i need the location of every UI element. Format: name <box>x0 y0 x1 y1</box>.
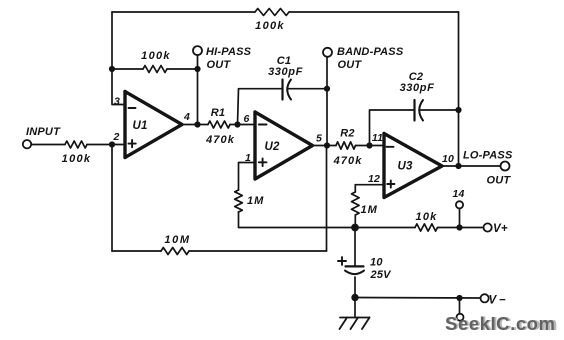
label pin 6 <box>243 113 249 125</box>
label cap 25V <box>370 269 393 281</box>
svg-text:10: 10 <box>442 153 454 165</box>
wire C1 to band-pass node <box>287 88 327 90</box>
svg-text:14: 14 <box>452 188 464 200</box>
svg-text:330pF: 330pF <box>400 82 435 94</box>
wire 10M up to U2 out <box>326 146 328 252</box>
label LO-PASS OUT <box>487 175 512 187</box>
node U3 pin 11 <box>366 142 372 148</box>
svg-text:25V: 25V <box>370 269 393 281</box>
wire node2 down <box>111 145 113 252</box>
label V- <box>489 295 506 307</box>
U2 plus sign <box>259 159 267 167</box>
label V+ <box>493 223 508 235</box>
label pin 10 <box>442 153 454 165</box>
svg-text:1M: 1M <box>247 195 264 207</box>
svg-text:10k: 10k <box>416 211 438 223</box>
node hi-pass <box>194 66 200 72</box>
wire pin14 stem <box>459 208 461 227</box>
label INPUT <box>26 126 61 138</box>
label R1 <box>211 107 225 119</box>
wire V- rail <box>355 297 480 300</box>
label R1 value <box>205 134 235 146</box>
label pin 3 <box>114 96 120 108</box>
wire U1 feedback left <box>112 68 143 70</box>
svg-text:5: 5 <box>316 133 322 145</box>
wire R1 to pin 6 <box>230 124 255 126</box>
svg-text:OUT: OUT <box>207 59 232 71</box>
node input pin 2 <box>109 141 115 147</box>
svg-text:BAND-PASS: BAND-PASS <box>337 46 404 58</box>
terminal BAND-PASS OUT <box>323 48 332 57</box>
wire resistor to node 2 <box>87 144 112 146</box>
wire band-pass stem <box>326 57 328 146</box>
terminal pin 14 <box>456 201 463 208</box>
node V- <box>456 295 462 301</box>
svg-text:U1: U1 <box>132 120 147 132</box>
node U1 inverting input <box>109 66 115 72</box>
U3 minus sign <box>387 146 394 148</box>
wire bias to 10k <box>355 227 415 229</box>
wire U1 output <box>182 124 208 126</box>
svg-text:12: 12 <box>368 173 380 185</box>
wire cap to ground node <box>354 277 356 298</box>
label 100k top <box>255 20 285 32</box>
U1 plus sign <box>129 140 136 147</box>
node C2 right <box>455 107 461 113</box>
op-amp U1 <box>125 92 182 158</box>
wire left vertical from top rail <box>111 12 113 69</box>
svg-text:U2: U2 <box>264 141 280 153</box>
wire right vertical rail <box>458 12 460 166</box>
node lo-pass <box>455 163 461 169</box>
terminal V+ <box>484 223 492 231</box>
label R2 value <box>333 155 363 167</box>
label pin 1 <box>245 152 251 164</box>
label cap 10 <box>370 257 383 269</box>
resistor 100k U1 feedback <box>143 66 167 73</box>
svg-text:470k: 470k <box>205 134 235 146</box>
wire node 2 to U1 <box>112 144 125 146</box>
label pin 12 <box>368 173 380 185</box>
resistor 10k <box>415 224 438 231</box>
wire input to resistor <box>31 144 65 146</box>
wire R2 to pin 11 <box>356 145 385 147</box>
resistor 100k input <box>65 141 87 148</box>
label HI-PASS OUT <box>207 59 232 71</box>
label pin 11 <box>372 132 383 144</box>
svg-text:SeekIC.com: SeekIC.com <box>445 313 555 334</box>
wire C1 branch <box>238 89 283 125</box>
label 10k <box>416 211 438 223</box>
terminal V- <box>481 294 489 302</box>
svg-text:1M: 1M <box>361 204 378 216</box>
wire U3 output <box>442 165 501 167</box>
wire bias to cap <box>354 228 356 267</box>
node U1 output <box>194 121 200 127</box>
svg-text:11: 11 <box>372 132 383 144</box>
label 100k U1 feedback <box>141 50 171 62</box>
wire 1M U2 to bias rail <box>239 212 356 228</box>
label U3 <box>397 161 413 173</box>
wire U1 feedback right <box>167 68 198 70</box>
label 10M <box>164 234 190 246</box>
svg-text:LO-PASS: LO-PASS <box>463 150 513 162</box>
wire hi-pass stem <box>197 55 199 124</box>
resistor R1 470k <box>208 121 230 128</box>
U2 minus sign <box>259 124 267 126</box>
node V+ <box>456 224 462 230</box>
svg-text:INPUT: INPUT <box>26 126 61 138</box>
label R2 <box>340 128 354 140</box>
svg-text:100k: 100k <box>255 20 285 32</box>
wire C2 to right rail <box>419 109 458 111</box>
resistor 10M <box>161 248 189 255</box>
label pin 2 <box>112 131 119 143</box>
capacitor C1 <box>283 80 292 100</box>
resistor R2 470k <box>336 142 356 149</box>
label 100k input <box>62 153 92 165</box>
op-amp U3 <box>384 134 442 198</box>
wire top feedback rail <box>112 11 459 13</box>
node U2 output <box>324 142 330 148</box>
wire to U1 pin 3 <box>112 69 125 105</box>
watermark SeekIC.com <box>445 313 558 334</box>
svg-text:HI-PASS: HI-PASS <box>206 46 252 58</box>
capacitor C2 <box>415 100 424 121</box>
node C1 band-pass <box>324 86 330 92</box>
label U1 <box>132 120 147 132</box>
wire V- pin stem <box>459 298 461 314</box>
label pin 5 <box>316 133 322 145</box>
svg-text:10M: 10M <box>164 234 190 246</box>
wire U3 pin 12 <box>355 184 384 186</box>
svg-text:330pF: 330pF <box>268 66 303 78</box>
label C2 <box>409 71 423 83</box>
svg-text:OUT: OUT <box>338 59 363 71</box>
terminal pin 7 <box>457 314 464 321</box>
svg-text:2: 2 <box>112 131 119 143</box>
svg-text:R1: R1 <box>211 107 225 119</box>
wire 10k to V+ <box>438 227 484 229</box>
svg-text:6: 6 <box>243 113 249 125</box>
terminal INPUT <box>23 140 31 148</box>
wire C2 branch <box>370 110 415 146</box>
resistor 100k top <box>255 9 289 16</box>
wire 1M U3 to bias node <box>354 215 356 228</box>
capacitor 10uF 25V <box>345 266 364 274</box>
wire 10M left <box>112 250 161 252</box>
wire pin12 down <box>354 185 356 192</box>
label LO-PASS <box>463 150 513 162</box>
svg-text:V+: V+ <box>493 223 508 235</box>
node U2 pin 6 <box>234 121 240 127</box>
svg-text:3: 3 <box>114 96 120 108</box>
svg-text:OUT: OUT <box>487 175 512 187</box>
cap plus sign <box>338 257 346 265</box>
U3 plus sign <box>387 180 394 187</box>
svg-text:V −: V − <box>489 295 506 307</box>
terminal LO-PASS OUT <box>501 162 510 171</box>
label HI-PASS <box>206 46 252 58</box>
wire U2 pin1 <box>239 163 256 191</box>
label pin 14 <box>452 188 464 200</box>
op-amp U2 <box>255 112 313 179</box>
label BAND-PASS <box>337 46 404 58</box>
svg-text:470k: 470k <box>333 155 363 167</box>
svg-text:100k: 100k <box>62 153 92 165</box>
label 1M U3 <box>361 204 378 216</box>
wire U2 output <box>313 145 337 147</box>
svg-text:4: 4 <box>183 111 190 123</box>
svg-text:R2: R2 <box>340 128 354 140</box>
svg-text:100k: 100k <box>141 50 171 62</box>
svg-text:U3: U3 <box>397 161 413 173</box>
node ground <box>351 294 358 301</box>
wire 10M right <box>189 250 327 252</box>
resistor 1M U2 <box>235 190 243 212</box>
label C2 value <box>400 82 435 94</box>
label C1 value <box>268 66 303 78</box>
ground <box>340 318 370 330</box>
wire ground stem <box>354 298 356 318</box>
node bias <box>351 224 359 232</box>
label C1 <box>277 55 291 67</box>
terminal HI-PASS OUT <box>193 46 202 55</box>
label U2 <box>264 141 280 153</box>
label 1M U2 <box>247 195 264 207</box>
resistor 1M U3 <box>352 192 360 215</box>
svg-text:10: 10 <box>370 257 383 269</box>
label BAND-PASS OUT <box>338 59 363 71</box>
U1 minus sign <box>129 107 136 109</box>
label pin 4 <box>183 111 190 123</box>
